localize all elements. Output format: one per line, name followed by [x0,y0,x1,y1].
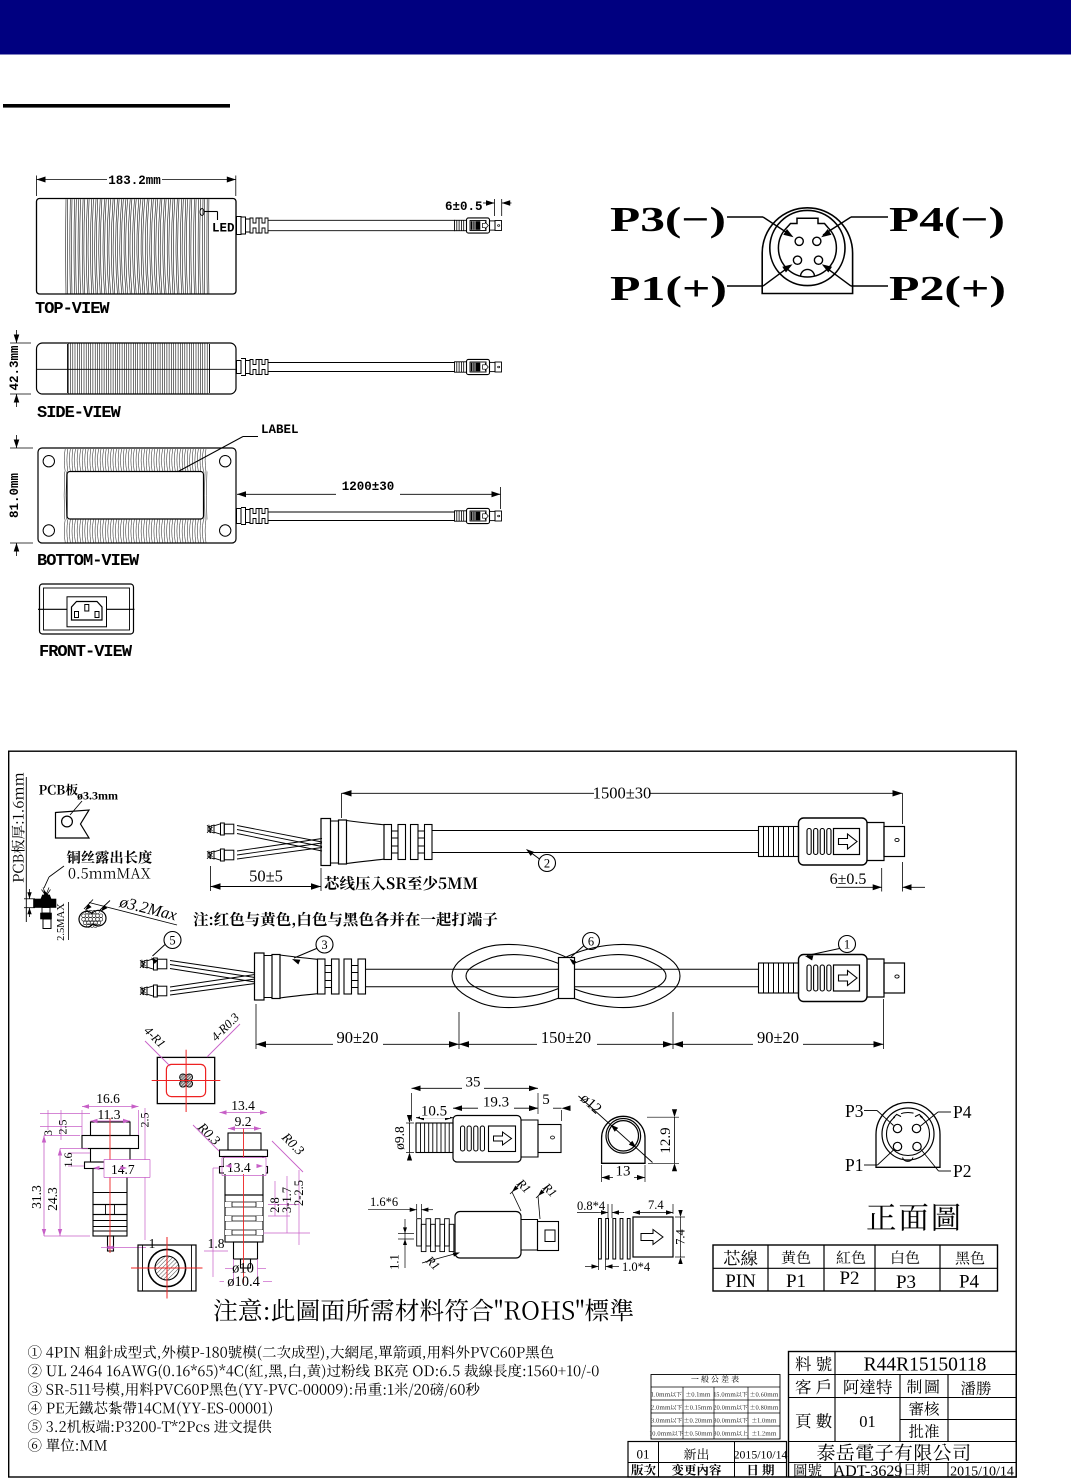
balloon 3 [316,936,333,953]
svg-text:3: 3 [41,1130,55,1136]
svg-text:24.3: 24.3 [45,1187,60,1211]
part D magenta dims [220,1112,268,1114]
part D: plug profile (side) [228,1133,261,1150]
svg-text:2.5: 2.5 [138,1113,152,1128]
svg-text:ADT-3629: ADT-3629 [834,1463,903,1480]
part C centerlines [131,1267,203,1269]
svg-text:R1: R1 [539,1180,559,1200]
assembly2 output connector [759,955,905,1002]
svg-text:LED: LED [212,222,235,236]
dimension 42.3mm [10,342,31,344]
svg-text:5: 5 [169,933,175,947]
bottom-view cable [237,509,242,524]
bottom-view output connector [455,508,502,523]
svg-text:6±0.5: 6±0.5 [830,871,867,888]
black rule under banner [3,104,230,108]
dim 19.3 [453,1107,538,1109]
svg-text:7.4: 7.4 [648,1198,664,1212]
title block [789,1352,1017,1478]
terminal side view (black) [42,888,51,897]
svg-text:1.6*6: 1.6*6 [370,1195,398,1209]
svg-text:2.5MAX: 2.5MAX [56,903,67,941]
svg-text:P1: P1 [845,1155,863,1175]
svg-text:4-R1: 4-R1 [141,1024,168,1051]
svg-text:R0.3: R0.3 [194,1119,223,1148]
svg-text:1200±30: 1200±30 [342,480,395,494]
part A centerlines [152,1080,221,1082]
svg-text:12.9: 12.9 [658,1127,674,1153]
svg-text:ø3.2Max: ø3.2Max [117,892,180,925]
svg-text:ø12: ø12 [577,1091,604,1118]
4-R0.3 label [207,1024,240,1057]
4-R1 label [145,1041,170,1066]
svg-text:19.3: 19.3 [483,1095,509,1111]
cable coil right lobe outer [562,944,680,1007]
dimension 183.2mm [36,176,38,197]
svg-text:1500±30: 1500±30 [593,784,652,803]
wire color table [713,1245,998,1291]
leader P4 [851,216,888,218]
svg-text:P3: P3 [896,1272,916,1293]
svg-text:1.6: 1.6 [61,1153,75,1168]
dim 10.5 [416,1117,453,1119]
dimension 90+-20 / 150+-20 / 90+-20 [255,1004,257,1049]
svg-text:LABEL: LABEL [261,423,299,437]
14.7 dim [104,1160,150,1177]
top-view cable + strain relief [237,217,242,235]
side-view output connector [455,359,502,374]
assembly2 wires [170,961,255,974]
assembly1 cable [432,830,759,832]
balloon 2 [539,855,556,872]
ring drawing outline [602,1116,645,1163]
assembly1 crimp terminal upper [207,823,234,835]
front-view title 正面圖 [867,1203,959,1231]
wire strand cross-section [79,910,106,927]
svg-text:R0.3: R0.3 [278,1129,307,1158]
label recess [67,472,204,520]
side-view cable [237,361,242,374]
svg-text:R44R15150118: R44R15150118 [864,1355,987,1376]
dim 12.9 [647,1116,679,1118]
right side small dims 2.8 / 3-1.7 / 2-2.5 [268,1204,299,1206]
svg-text:2: 2 [544,856,550,870]
svg-text:2015/10/14: 2015/10/14 [734,1448,788,1462]
svg-text:P4: P4 [953,1102,972,1122]
dim dia 9.8 [409,1123,411,1153]
PCB pad with hole [56,810,90,838]
svg-text:81.0mm: 81.0mm [8,473,22,519]
keyed shield opening [778,218,836,277]
svg-text:TOP-VIEW: TOP-VIEW [35,300,110,319]
front-view centerline [38,608,135,610]
comb part body [417,1219,422,1246]
svg-text:R1: R1 [513,1176,533,1196]
FRONT-VIEW outline [40,584,134,634]
assembly1 strain relief SR-511 [321,819,432,866]
assembly2 strain relief SR-511 [255,953,366,1000]
svg-text:P3: P3 [845,1101,864,1121]
assembly1 output connector [759,818,905,865]
top navy banner [0,0,1071,55]
svg-text:01: 01 [637,1447,650,1462]
assembly2 cable left [366,968,759,970]
1.1 dim [404,1219,406,1268]
bottom-view screw bosses [43,456,54,467]
svg-text:BOTTOM-VIEW: BOTTOM-VIEW [37,552,140,571]
dimension 1500+-30 [342,792,595,794]
revision strip [628,1442,787,1478]
SIDE-VIEW adapter body [37,343,237,394]
svg-text:SIDE-VIEW: SIDE-VIEW [37,404,122,423]
svg-text:13.4: 13.4 [231,1098,255,1113]
svg-text:42.3mm: 42.3mm [8,345,22,391]
svg-text:P2: P2 [839,1268,859,1289]
dia 10 / 10.4 dims [233,1259,235,1285]
7.4 dim right [680,1217,682,1257]
notes list [28,1345,553,1360]
dim 13 [601,1165,603,1182]
leader P3 [727,216,763,218]
leader P1 [727,285,763,287]
part D comb [225,1195,263,1242]
part B centerline [109,1118,111,1253]
svg-text:ø9.8: ø9.8 [392,1126,407,1150]
svg-text:3: 3 [321,938,327,952]
assembly2 crimp terminal upper [140,958,167,970]
svg-text:35: 35 [466,1075,481,1091]
"1" dim at tip [114,1236,156,1248]
copper wire exposure note [67,850,152,864]
top-view output connector [455,218,502,233]
svg-text:90±20: 90±20 [757,1028,799,1047]
svg-text:183.2mm: 183.2mm [108,174,161,188]
part B magenta dims [82,1106,139,1108]
part C: bottom view square [138,1245,196,1291]
pins [795,237,803,245]
svg-text:PIN: PIN [725,1271,756,1292]
svg-text:2-2.5: 2-2.5 [292,1180,306,1206]
balloon 6 [583,933,600,950]
comb strips [599,1219,602,1260]
ROHS notice [214,1298,633,1321]
svg-text:ø3.3mm: ø3.3mm [77,789,118,803]
bottom-view rib hatch top band [64,449,206,472]
PCB pad label [39,784,78,796]
TOP-VIEW adapter body [37,199,237,295]
leader P2 [851,285,888,287]
connector dim drawing body [416,1123,453,1153]
dim 5 [553,1107,562,1109]
svg-text:2.5: 2.5 [56,1120,70,1135]
assembly1 wires [237,826,322,843]
LED indicator [200,209,204,216]
drawing sheet frame [9,751,1017,1477]
svg-text:31.3: 31.3 [29,1185,44,1209]
svg-text:150±20: 150±20 [541,1028,591,1047]
side-view centerline [37,368,237,370]
svg-text:16.6: 16.6 [96,1091,120,1106]
dia 3.2 max leader [84,900,93,910]
assembly1 crimp terminal lower [207,849,234,861]
svg-text:FRONT-VIEW: FRONT-VIEW [39,643,133,662]
svg-text:R1: R1 [422,1253,442,1273]
svg-text:P2: P2 [953,1161,971,1181]
dimension 50+-5 [210,866,212,891]
IEC C14 inlet [72,602,103,621]
connector outline: circle + square base [762,208,852,294]
pcb thickness dim ticks [24,898,35,900]
note: red&yellow, white&black terminals [193,912,497,928]
bottom-view rib hatch bottom band [64,520,206,543]
svg-text:50±5: 50±5 [249,867,283,886]
svg-text:P4: P4 [959,1272,980,1293]
top-view rib texture [66,199,209,294]
small view pins [893,1124,901,1132]
svg-text:5: 5 [542,1092,550,1108]
dim 35 [411,1093,413,1121]
svg-text:1: 1 [149,1236,156,1251]
dimension 81.0mm [10,447,33,449]
general tolerance table [691,1375,739,1382]
PCB thickness label [11,773,24,882]
side-view rib texture [68,343,207,393]
cable coil right lobe inner [570,955,666,998]
balloon 1 [839,936,856,953]
svg-text:2015/10/14: 2015/10/14 [950,1465,1014,1480]
svg-text:ø10.4: ø10.4 [227,1274,260,1290]
svg-text:P1(+): P1(+) [610,269,727,308]
BOTTOM-VIEW adapter body [38,448,236,543]
svg-text:1.8: 1.8 [208,1236,225,1251]
balloon 5 [164,932,181,949]
bottom key notch [801,269,815,276]
svg-text:P1: P1 [786,1271,806,1292]
small pin front view [876,1103,940,1168]
part A: pin end view [157,1057,214,1103]
svg-text:10.5: 10.5 [421,1104,447,1120]
svg-text:11.3: 11.3 [97,1107,120,1122]
svg-text:7.4: 7.4 [674,1228,688,1244]
svg-text:13: 13 [616,1164,631,1180]
svg-text:P2(+): P2(+) [889,269,1006,308]
coil tie band [559,958,575,999]
AC inlet block [67,597,107,627]
note: core wire pressed into SR at least 5MM [325,876,478,891]
svg-text:1: 1 [844,937,850,951]
31.3 / 24.3 vertical dims [43,1136,45,1237]
svg-text:P3(−): P3(−) [610,200,726,239]
svg-text:01: 01 [859,1412,876,1431]
bottom-view side hatch [64,472,207,520]
dia 12 dim line [579,1096,653,1163]
svg-text:1.1: 1.1 [388,1254,402,1270]
part D centerline [243,1128,245,1283]
assembly2 crimp terminal lower [140,985,167,997]
svg-text:14.7: 14.7 [111,1162,135,1177]
svg-text:90±20: 90±20 [336,1028,378,1047]
cable coil left lobe inner [466,955,562,998]
small left dims 3 / 2.5 / 1.6 [47,1110,49,1130]
part B: plug profile (front) [91,1122,131,1136]
svg-text:6: 6 [588,934,594,948]
svg-text:1.0*4: 1.0*4 [622,1260,651,1274]
svg-text:P4(−): P4(−) [889,200,1005,239]
cable coil left lobe outer [452,944,570,1007]
svg-text:9.2: 9.2 [235,1114,252,1129]
svg-text:6±0.5: 6±0.5 [445,200,483,214]
